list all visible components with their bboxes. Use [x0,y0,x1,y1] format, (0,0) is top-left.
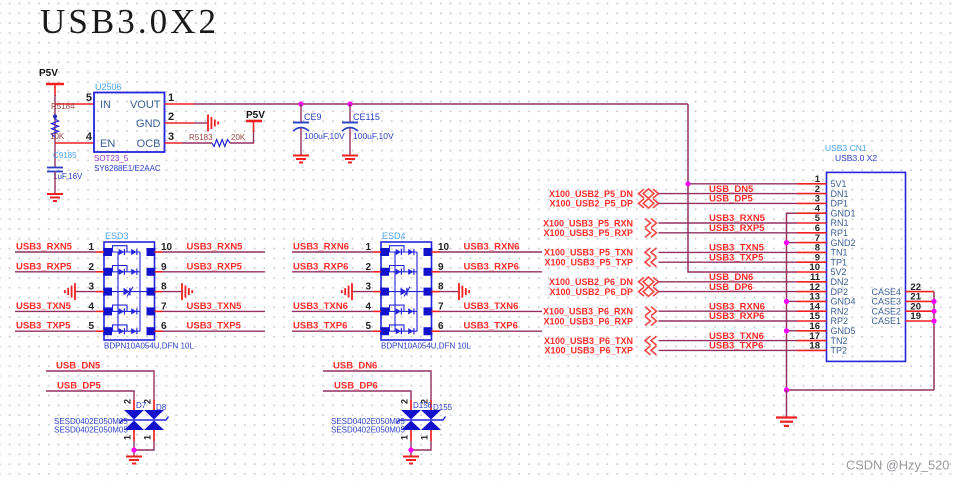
pad pin 1 of ESD3 [103,248,112,256]
wire/net USB3_RXN6 to pin 1 [292,251,373,253]
svg-text:USB3_RXN5: USB3_RXN5 [187,242,244,253]
ground below TVS pair [403,456,419,458]
wire GND4 pin 13 [787,300,798,302]
internal diodes of ESD3 [112,246,147,335]
svg-text:USB_DP6: USB_DP6 [334,381,378,392]
wire GND pin to earth [194,122,207,124]
wire/net USB3_TXN6 from pin 7 [432,310,440,312]
svg-text:2: 2 [400,399,410,404]
svg-text:SY6288E1/E2AAC: SY6288E1/E2AAC [94,164,161,173]
svg-text:USB3.0 X2: USB3.0 X2 [835,153,877,163]
svg-text:SESD0402E050M05: SESD0402E050M05 [54,426,128,435]
ground below C9185 [47,193,63,195]
port X100_USB2_P5_DN [549,189,659,199]
pin 20 CASE2 stub [906,310,935,312]
wire/net USB3_TXP5 from pin 6 [155,330,163,332]
svg-text:1uF,16V: 1uF,16V [53,172,83,181]
svg-text:CE115: CE115 [353,112,380,122]
pin 2 GND stub [165,122,195,124]
pin 9 TP1 stub [797,261,827,263]
pin 14 RN2 stub [797,310,827,312]
junction GND4 [784,299,789,304]
pad pin 8 of ESD4 [424,288,433,296]
pin 7 GND2 stub [797,242,827,244]
wire GND5 pin 16 [787,330,798,332]
pin 2 DN1 stub [797,193,827,195]
wire/net USB3_TXP6 from pin 6 [432,330,440,332]
svg-text:OCB: OCB [137,138,161,150]
wire pin 3 to earth [352,291,373,293]
svg-text:USB3_TXN6: USB3_TXN6 [464,301,519,312]
pin 1 stubs of TVS diodes [410,430,412,441]
svg-text:X100_USB3_P5_TXN: X100_USB3_P5_TXN [544,248,633,258]
svg-text:USB3_RXN6: USB3_RXN6 [464,242,520,253]
junction CASE1 [931,318,936,323]
svg-text:DP2: DP2 [831,287,849,297]
svg-text:BDPN10A054U,DFN 10L: BDPN10A054U,DFN 10L [104,342,194,351]
wire/net USB3_RXN5 to pin 1 [15,251,96,253]
wire net USB_DN6 [659,281,798,283]
svg-text:X100_USB3_P6_TXP: X100_USB3_P6_TXP [544,346,633,356]
svg-text:DN2: DN2 [831,277,849,287]
svg-text:1: 1 [143,435,153,440]
svg-text:DN1: DN1 [831,189,849,199]
port X100_USB3_P6_RXN [543,307,657,317]
pin 21 CASE3 stub [906,300,935,302]
pin 2 stubs of TVS diodes [133,400,135,410]
pin 1 5V1 stub [797,183,827,185]
svg-text:USB3_TXP5: USB3_TXP5 [187,321,242,332]
wire net USB3_TXP6 [659,349,798,351]
svg-text:USB3_RXP5: USB3_RXP5 [709,223,765,234]
svg-text:TN1: TN1 [831,248,848,258]
pad pin 3 of ESD3 [103,288,112,296]
TVS diode D155 [421,403,453,430]
junction at ground [408,447,413,452]
svg-text:GND1: GND1 [831,208,856,218]
svg-text:18: 18 [809,341,820,352]
pad pin 9 of ESD3 [147,268,156,276]
wire GND bus from pin 4 [787,213,798,390]
junction CASE3 [931,299,936,304]
junction 5V at pin 1 [685,181,690,186]
svg-text:5: 5 [86,92,92,104]
wire diode cathodes to ground [133,441,135,456]
svg-text:1: 1 [123,435,133,440]
svg-text:GND4: GND4 [831,297,856,307]
port X100_USB2_P6_DN [549,277,659,287]
earth right of ESD4 [458,283,460,300]
svg-text:USB3_TXP6: USB3_TXP6 [464,321,518,332]
pin 10 5V2 stub [797,271,827,273]
pad pin 7 of ESD3 [147,307,156,315]
pad pin 4 of ESD4 [380,307,389,315]
port X100_USB2_P6_DP [549,287,658,297]
port X100_USB3_P6_TXP [544,346,656,356]
svg-text:D156: D156 [413,401,433,410]
wire net USB_DP5 [659,202,798,204]
svg-text:5V2: 5V2 [831,267,847,277]
capacitor C9185 1uF,16V [47,151,83,194]
pin 17 TN2 stub [797,340,827,342]
svg-text:10K: 10K [50,132,65,141]
wire/net USB3_TXP6 to pin 5 [292,330,373,332]
ground below TVS pair [126,456,142,458]
pin 15 RP2 stub [797,320,827,322]
wire net USB3_TXN6 [659,340,798,342]
svg-text:X100_USB3_P6_TXN: X100_USB3_P6_TXN [544,336,633,346]
resistor R5183 20K [182,133,246,147]
svg-text:CASE1: CASE1 [871,316,901,326]
pin 6 RP1 stub [797,232,827,234]
svg-text:USB3_TXP5: USB3_TXP5 [16,321,71,332]
svg-text:USB3_RXN5: USB3_RXN5 [16,242,73,253]
TVS diode D7 [124,401,147,430]
power P5V at R5183 [246,110,265,132]
pin 19 CASE1 stub [906,320,935,322]
port X100_USB3_P6_RXP [543,316,656,326]
port X100_USB3_P5_RXN [543,218,657,228]
pin 2 stubs of TVS diodes [410,400,412,410]
wire IN pin 5 [55,103,94,105]
svg-text:USB3_TXN6: USB3_TXN6 [293,301,348,312]
svg-text:RP2: RP2 [831,316,849,326]
junction GND2 [784,240,789,245]
svg-text:X100_USB2_P5_DP: X100_USB2_P5_DP [549,199,633,209]
svg-text:X100_USB3_P5_RXN: X100_USB3_P5_RXN [543,218,633,228]
wire VOUT 5V rail [194,103,688,105]
junction GND bottom [784,387,789,392]
svg-text:1: 1 [420,435,430,440]
svg-text:SESD0402E050M05: SESD0402E050M05 [331,426,405,435]
svg-text:USB_DN5: USB_DN5 [56,361,101,372]
svg-text:USB3 CN1: USB3 CN1 [825,143,867,153]
pad pin 2 of ESD3 [103,268,112,276]
svg-text:RN1: RN1 [831,218,849,228]
junction at ground [131,447,136,452]
svg-text:USB3_TXN5: USB3_TXN5 [187,301,243,312]
svg-text:TP2: TP2 [831,346,848,356]
svg-text:3: 3 [168,131,174,143]
wire bottom GND run [787,389,935,391]
wire pin 8 to earth [432,291,440,293]
svg-text:USB3_RXP6: USB3_RXP6 [293,261,348,272]
svg-text:USB3_RXP5: USB3_RXP5 [16,261,72,272]
port X100_USB3_P5_TXN [544,248,657,258]
svg-text:USB3_TXP6: USB3_TXP6 [709,341,763,352]
capacitor CE115 100uF,10V [342,104,394,155]
svg-text:ESD3: ESD3 [105,231,129,241]
pad pin 7 of ESD4 [424,307,433,315]
wire pin 8 to earth [155,291,163,293]
ground below CE9 [293,155,309,157]
port X100_USB2_P5_DP [549,199,658,209]
svg-text:20K: 20K [231,133,246,142]
wire net USB_DP6 [659,291,798,293]
svg-text:2: 2 [123,399,133,404]
pin 22 CASE4 stub [906,291,935,293]
svg-text:X100_USB2_P6_DN: X100_USB2_P6_DN [549,277,633,287]
svg-text:SOT23_5: SOT23_5 [94,154,129,163]
svg-text:RP1: RP1 [831,228,849,238]
svg-text:CASE2: CASE2 [871,306,901,316]
wire/net USB3_RXP5 from pin 9 [155,271,163,273]
junction CASE2 [931,309,936,314]
svg-text:CSDN @Hzy_520: CSDN @Hzy_520 [846,458,949,473]
svg-text:USB3_TXN5: USB3_TXN5 [16,301,72,312]
svg-text:R5183: R5183 [189,133,213,142]
svg-text:1: 1 [400,435,410,440]
pin 1 stubs of TVS diodes [133,430,135,441]
svg-text:VOUT: VOUT [130,99,161,111]
svg-text:DP1: DP1 [831,199,849,209]
pin 4 GND1 stub [797,212,827,214]
pad pin 6 of ESD3 [147,327,156,335]
svg-text:USB_DP6: USB_DP6 [709,282,753,293]
internal diodes of ESD4 [389,246,424,335]
svg-text:CE9: CE9 [304,112,322,122]
wire/net USB3_RXP6 to pin 2 [292,271,373,273]
pin 16 GND5 stub [797,330,827,332]
pin 3 OCB stub [165,142,183,144]
wire/net USB3_TXN5 to pin 4 [15,310,96,312]
wire 5V rail down to connector [688,104,797,272]
wire/net USB3_RXN6 from pin 10 [432,251,440,253]
pad pin 5 of ESD3 [103,327,112,335]
svg-text:R5184: R5184 [51,102,75,111]
svg-text:USB3_RXP6: USB3_RXP6 [709,311,764,322]
svg-text:X100_USB3_P5_TXP: X100_USB3_P5_TXP [544,258,633,268]
svg-text:P5V: P5V [39,68,58,79]
svg-text:5V1: 5V1 [831,179,847,189]
svg-text:USB_DN6: USB_DN6 [333,361,377,372]
resistor R5184 10K [50,102,75,141]
pad pin 6 of ESD4 [424,327,433,335]
pin 18 TP2 stub [797,349,827,351]
svg-text:1: 1 [168,92,174,104]
ESD array ESD3 BDPN10A054U [104,231,194,351]
earth left of ESD3 [74,283,76,300]
TVS diode D8 [144,403,167,430]
svg-text:USB_DP5: USB_DP5 [709,194,754,205]
wire pin 3 to earth [75,291,96,293]
svg-text:EN: EN [100,138,115,150]
svg-text:4: 4 [86,131,93,143]
pin 11 DN2 stub [797,281,827,283]
wire to ground symbol [786,390,788,417]
pin 5 RN1 stub [797,222,827,224]
pad pin 3 of ESD4 [380,288,389,296]
svg-text:USB3_RXP6: USB3_RXP6 [464,261,519,272]
earth left of ESD4 [351,283,353,300]
wire/net USB_DN6 [323,361,431,402]
pad pin 10 of ESD3 [147,248,156,256]
svg-text:X100_USB3_P6_RXN: X100_USB3_P6_RXN [543,307,633,317]
pin 13 GND4 stub [797,300,827,302]
pin 8 TN1 stub [797,251,827,253]
TVS diode D156 [401,401,433,430]
svg-text:D7: D7 [136,401,147,410]
wire CASE bus [933,292,935,390]
svg-text:X100_USB2_P6_DP: X100_USB2_P6_DP [549,287,633,297]
pin 3 DP1 stub [797,202,827,204]
wire/net USB_DP5 [46,381,134,402]
earth right of ESD3 [181,283,183,300]
svg-text:2: 2 [168,111,174,123]
svg-text:IN: IN [100,99,111,111]
svg-text:CASE4: CASE4 [871,287,901,297]
wire/net USB3_RXP6 from pin 9 [432,271,440,273]
svg-text:USB3_TXP5: USB3_TXP5 [709,252,764,263]
node resistor top [53,114,57,118]
svg-text:19: 19 [910,311,921,322]
wire net USB3_RXN6 [659,310,798,312]
wire/net USB3_RXP5 to pin 2 [15,271,96,273]
ground of connector [776,416,797,418]
svg-text:P5V: P5V [246,110,265,121]
wire net USB3_TXP5 [659,261,798,263]
svg-text:USB3_RXN6: USB3_RXN6 [293,242,349,253]
wire/net USB_DN5 [46,361,154,402]
wire/net USB_DP6 [323,381,411,402]
svg-text:U2506: U2506 [95,82,122,92]
pin 1 VOUT stub [165,103,195,105]
power P5V input [39,68,64,96]
svg-text:TN2: TN2 [831,336,848,346]
svg-text:USB3_RXP5: USB3_RXP5 [187,261,243,272]
svg-text:X100_USB3_P6_RXP: X100_USB3_P6_RXP [543,316,633,326]
wire net USB3_RXP5 [659,232,798,234]
op-amp U2506 SY6288E1/E2AAC [86,82,174,173]
wire/net USB3_TXN6 to pin 4 [292,310,373,312]
wire net USB3_RXN5 [659,222,798,224]
port X100_USB3_P5_RXP [543,228,656,238]
svg-text:100uF,10V: 100uF,10V [304,131,345,141]
wire pin 1 5V1 [688,183,797,185]
zener bar across pair [397,417,446,424]
svg-text:GND: GND [136,118,161,130]
ground below CE115 [342,155,358,157]
pad pin 9 of ESD4 [424,268,433,276]
pad pin 2 of ESD4 [380,268,389,276]
pad pin 4 of ESD3 [103,307,112,315]
wire/net USB3_TXP5 to pin 5 [15,330,96,332]
wire GND2 pin 7 [787,242,798,244]
port X100_USB3_P5_TXP [544,258,656,268]
pad pin 8 of ESD3 [147,288,156,296]
svg-text:X100_USB2_P5_DN: X100_USB2_P5_DN [549,189,633,199]
port X100_USB3_P6_TXN [544,336,657,346]
junction at CE115 [347,101,352,106]
wire net USB3_RXP6 [659,320,798,322]
junction at CE9 [298,101,303,106]
svg-text:X100_USB3_P5_RXP: X100_USB3_P5_RXP [543,228,633,238]
capacitor CE9 100uF,10V [293,104,345,155]
earth symbol at pin 2 [207,115,209,132]
wire/net USB3_TXN5 from pin 7 [155,310,163,312]
pin 12 DP2 stub [797,291,827,293]
wire diode cathodes to ground [410,441,412,456]
wire net USB3_TXN5 [659,251,798,253]
svg-text:BDPN10A054U,DFN 10L: BDPN10A054U,DFN 10L [381,342,471,351]
svg-text:GND2: GND2 [831,238,856,248]
ESD array ESD4 BDPN10A054U [381,231,471,351]
wire P5V to IN/R5184 [54,95,56,168]
pad pin 5 of ESD4 [380,327,389,335]
wire net USB_DN5 [659,193,798,195]
wire EN pin 4 [55,142,94,144]
wire OCB to P5V [230,131,254,143]
svg-text:ESD4: ESD4 [382,231,406,241]
connector CN1 USB3.0 X2 [825,143,906,361]
pad pin 10 of ESD4 [424,248,433,256]
svg-text:TP1: TP1 [831,257,848,267]
zener bar across pair [120,417,169,424]
svg-text:C9185: C9185 [53,151,77,160]
svg-text:100uF,10V: 100uF,10V [353,131,394,141]
pad pin 1 of ESD4 [380,248,389,256]
svg-text:GND5: GND5 [831,326,856,336]
svg-text:USB_DP5: USB_DP5 [57,381,102,392]
svg-text:USB3_TXP6: USB3_TXP6 [293,321,347,332]
svg-text:RN2: RN2 [831,306,849,316]
wire/net USB3_RXN5 from pin 10 [155,251,163,253]
svg-text:CASE3: CASE3 [871,297,901,307]
junction GND5 [784,328,789,333]
